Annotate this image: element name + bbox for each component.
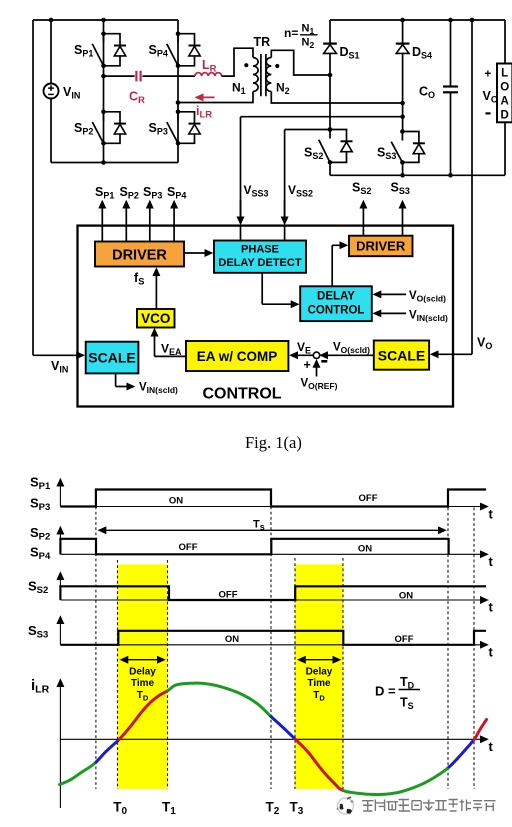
svg-text:O: O xyxy=(500,82,509,94)
wire VSS2 sense xyxy=(285,130,330,219)
transformer core xyxy=(261,54,266,96)
svg-text:CONTROL: CONTROL xyxy=(308,305,365,317)
svg-text:SCALE: SCALE xyxy=(378,348,425,364)
waveform row SS3 axes xyxy=(60,644,487,646)
node top rail VO sense xyxy=(470,18,475,23)
switch SP1 xyxy=(92,31,126,68)
transformer secondary winding N2 xyxy=(266,58,271,92)
wire VSS2 into control box xyxy=(284,226,286,241)
svg-text:TR: TR xyxy=(254,35,271,49)
wire secondary bottom lead xyxy=(271,92,402,104)
Ts span arrow xyxy=(99,529,445,531)
wire DELAY CONTROL to DRIVER secondary xyxy=(331,245,333,286)
switch SP2 xyxy=(92,110,126,146)
switch SS2 xyxy=(319,127,353,165)
wire top rail secondary xyxy=(330,19,505,21)
wire secondary top lead xyxy=(271,50,330,75)
arrow VOscld into DELAY CONTROL xyxy=(374,293,406,295)
node left leg mid (CR tap) xyxy=(101,74,106,79)
transformer TR primary winding N1 xyxy=(253,58,258,92)
svg-text:+: + xyxy=(304,358,311,372)
block DRIVER primary xyxy=(95,242,184,267)
switch SS3 xyxy=(391,129,425,165)
wire primary bottom return xyxy=(178,92,253,103)
node bottom rail CO leg xyxy=(448,173,453,178)
arrow summing to EA xyxy=(291,354,313,356)
capacitor CR xyxy=(136,71,140,82)
wire VSS3 into control box xyxy=(240,226,242,241)
wire VO sense down right side xyxy=(471,20,473,354)
svg-text:Fig. 1(a): Fig. 1(a) xyxy=(245,433,302,452)
waveform SP1/SP3 xyxy=(60,490,486,507)
svg-text:PHASE: PHASE xyxy=(241,244,279,256)
svg-text:ON: ON xyxy=(399,591,413,602)
waveform row SP2/SP4 axes xyxy=(60,553,487,555)
node VSS2 tap SS2 drain xyxy=(328,127,333,132)
svg-text:DELAY DETECT: DELAY DETECT xyxy=(218,257,301,269)
watermark text xyxy=(362,801,374,811)
svg-text:+: + xyxy=(485,69,492,81)
node right leg return junction xyxy=(176,100,181,105)
block PHASE DELAY DETECT xyxy=(214,241,306,273)
svg-text:EA w/ COMP: EA w/ COMP xyxy=(197,349,278,364)
control box frame xyxy=(78,226,454,407)
block SCALE output xyxy=(374,341,429,370)
svg-text:D =: D = xyxy=(375,684,396,699)
node top rail CO leg xyxy=(448,18,453,23)
svg-text:DRIVER: DRIVER xyxy=(112,248,167,264)
svg-text:CONTROL: CONTROL xyxy=(202,386,281,403)
watermark icon xyxy=(336,797,353,814)
node DS4 anode / N2 bottom xyxy=(400,101,405,106)
arrow VINscld into DELAY CONTROL xyxy=(374,312,406,314)
load block xyxy=(497,64,512,123)
svg-text:Time: Time xyxy=(307,678,331,689)
waveform row SP1/SP3 axes xyxy=(60,506,487,508)
node DS1 anode / N2 top xyxy=(328,73,333,78)
svg-text:OFF: OFF xyxy=(219,590,238,601)
delay time annotation 1 xyxy=(121,659,164,661)
wire SS3 leg to bottom rail xyxy=(402,162,404,175)
svg-text:VCO: VCO xyxy=(141,311,170,326)
wire right bridge leg xyxy=(177,20,179,163)
wire load bottom xyxy=(504,122,506,175)
svg-text:n=: n= xyxy=(284,26,298,40)
arrow VCO to DRIVER xyxy=(155,269,157,309)
wire VIN branch lower xyxy=(50,98,52,162)
wire load top xyxy=(504,20,506,64)
svg-text:SCALE: SCALE xyxy=(88,350,135,366)
svg-text:L: L xyxy=(501,68,508,80)
svg-text:D: D xyxy=(501,110,509,122)
arrow VOREF into summing xyxy=(316,361,318,377)
yellow delay bar 2 xyxy=(295,564,343,789)
waveform SS2 xyxy=(60,586,486,600)
wire VIN branch upper xyxy=(50,20,52,84)
svg-text:t: t xyxy=(489,600,494,615)
dashed timing guides xyxy=(95,507,97,790)
current arrow iLR xyxy=(196,96,215,98)
wire SCALE to VINscld xyxy=(115,373,117,386)
wire SS2 leg to bottom rail xyxy=(329,162,331,175)
svg-text:Time: Time xyxy=(131,678,155,689)
svg-text:t: t xyxy=(489,507,494,522)
arrow VO into SCALE xyxy=(448,353,472,355)
svg-text:ON: ON xyxy=(358,544,372,555)
gate drive arrows SP1..SP4 xyxy=(101,202,103,242)
iLR axis xyxy=(60,738,487,740)
wire DS4 leg xyxy=(402,20,404,130)
primary phase dot xyxy=(244,63,248,67)
wire DS1 leg xyxy=(329,20,331,130)
block SCALE input xyxy=(86,342,139,374)
svg-text:Delay: Delay xyxy=(306,667,333,678)
switch SP4 xyxy=(167,31,201,68)
svg-text:t: t xyxy=(489,645,494,660)
wire top rail primary xyxy=(33,19,178,21)
svg-text:DRIVER: DRIVER xyxy=(356,239,406,254)
secondary phase dot xyxy=(275,64,279,68)
wire VSS3 sense xyxy=(241,117,403,219)
wire SCALE to summing xyxy=(321,354,374,356)
node top rail DS4 leg xyxy=(400,18,405,23)
node top rail / VIN branch xyxy=(49,18,54,23)
arrow DRIVER to PDD xyxy=(184,252,212,254)
wire bottom rail primary xyxy=(51,162,178,164)
summing node xyxy=(313,352,319,358)
waveform SS3 xyxy=(60,631,486,645)
arrow VIN into SCALE xyxy=(33,354,83,356)
inductor LR xyxy=(195,73,222,76)
svg-text:ON: ON xyxy=(225,634,239,645)
diode DS1 xyxy=(323,44,337,54)
svg-text:Delay: Delay xyxy=(129,667,156,678)
delay time annotation 2 xyxy=(299,659,340,661)
svg-text:t: t xyxy=(489,739,494,754)
wire bottom rail secondary xyxy=(330,174,505,176)
source VIN xyxy=(44,84,59,99)
gate drive arrows SS2 SS3 xyxy=(362,202,364,236)
svg-text:ON: ON xyxy=(169,496,183,507)
resonant current curve xyxy=(60,762,97,784)
node left leg bottom rail xyxy=(101,160,106,165)
svg-text:t: t xyxy=(489,554,494,569)
yellow delay bar 1 xyxy=(118,564,168,789)
wire left edge VIN feed down to control xyxy=(32,20,34,355)
capacitor CO xyxy=(443,87,458,93)
svg-text:OFF: OFF xyxy=(359,493,378,504)
svg-text:A: A xyxy=(501,96,509,108)
waveform row SS2 axes xyxy=(60,599,487,601)
waveform SP2/SP4 xyxy=(60,539,448,555)
diode DS4 xyxy=(396,44,410,54)
block EA w COMP xyxy=(186,341,288,371)
block DELAY CONTROL xyxy=(300,286,372,321)
wire left bridge leg xyxy=(103,20,105,163)
switch SP3 xyxy=(167,110,201,146)
wire PDD to DELAY CONTROL xyxy=(261,273,263,304)
block VCO xyxy=(137,309,175,328)
block DRIVER secondary xyxy=(349,236,413,257)
wire CO leg xyxy=(450,20,452,175)
wire VEA to VCO xyxy=(155,355,187,357)
wire resonant link CR to LR xyxy=(104,75,196,77)
svg-text:OFF: OFF xyxy=(179,542,198,553)
wire LR to primary top xyxy=(222,48,254,76)
svg-text:OFF: OFF xyxy=(395,634,414,645)
node VSS3 tap on DS4 leg xyxy=(400,114,405,119)
node top rail / left leg xyxy=(101,18,106,23)
svg-text:DELAY: DELAY xyxy=(317,291,355,303)
